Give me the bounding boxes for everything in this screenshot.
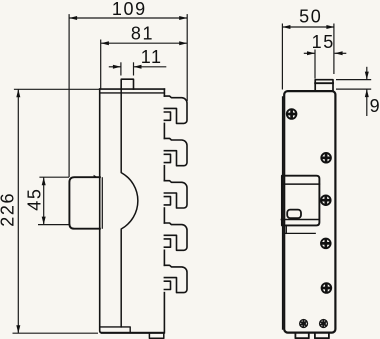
svg-text:15: 15 (312, 32, 335, 52)
dimension 109 left extension line (68, 14, 70, 177)
arrow 9 bottom (365, 89, 369, 97)
dimension 50 line (282, 26, 334, 28)
left view right edge segment between hooks 2-3 (163, 166, 165, 181)
left view internal vertical line with bump arc (121, 89, 138, 327)
svg-text:81: 81 (131, 23, 154, 43)
dimension 9 bottom extension line (336, 88, 371, 90)
arrow 50 right (326, 25, 334, 29)
right view left inner edge line (282, 97, 284, 329)
right view top tab mid line (315, 82, 333, 84)
dimension 11 left extension line (120, 62, 122, 75)
svg-text:109: 109 (112, 0, 147, 19)
right view bottom foot right (315, 334, 329, 339)
left view right edge segment above hook 1 (163, 89, 165, 96)
right view top tab (315, 80, 333, 91)
hook 5 outline (164, 265, 187, 292)
right view step below rectangle (285, 225, 287, 233)
protrusion base line inside body (101, 178, 103, 228)
arrow 226 bottom (16, 325, 20, 333)
left view right edge segment between hooks 4-5 (163, 250, 165, 265)
svg-text:45: 45 (25, 187, 45, 210)
arrow 50 left (282, 25, 290, 29)
hook 3 outline (164, 181, 187, 208)
left view top tab (121, 79, 133, 89)
left view left protrusion (69, 177, 100, 229)
dimension 81 line (101, 42, 187, 44)
screw S2 (321, 153, 331, 163)
svg-text:50: 50 (299, 7, 322, 27)
screw S1 (287, 109, 297, 119)
dimension 11 left tail (109, 66, 121, 68)
dimension 11 right extension line (133, 62, 135, 75)
left view body left edge and bottom edge (100, 89, 164, 333)
hook 4 outline (164, 223, 187, 250)
dimension 226 line (17, 89, 19, 333)
dimension 50 left extension line (281, 24, 283, 90)
dimension 81 left extension line (100, 40, 102, 89)
dimension 109/81 right extension line (186, 14, 188, 101)
bottom screw S6 (299, 319, 308, 328)
arrow 81 left (101, 41, 109, 45)
arrow 45 top (42, 177, 46, 185)
left view right edge segment between hooks 3-4 (163, 208, 165, 223)
arrow 15 right (335, 51, 343, 55)
left view body top edge outer (100, 88, 165, 90)
dimension 226 bottom extension line (13, 332, 99, 334)
dimension 11 right tail (134, 66, 167, 68)
dimension 226 top extension line (14, 88, 100, 90)
dimension 45 bottom extension line (38, 224, 69, 226)
hook 3 tooth (164, 197, 170, 205)
right view shadow line below rectangle (284, 232, 315, 234)
arrow 11 left (113, 65, 121, 69)
dimension 45 line (43, 177, 45, 224)
arrow 11 right (134, 65, 142, 69)
arrow 109 right (179, 16, 187, 20)
screw S3 (321, 195, 331, 205)
hook 1 tooth (164, 112, 170, 120)
dimension 109 line (69, 17, 187, 19)
right view middle rectangle top inner line (283, 183, 319, 185)
dimension 45 top extension line (39, 176, 69, 178)
left view right edge segment below hook 5 (163, 293, 165, 333)
hook 2 tooth (164, 154, 170, 162)
arrow 81 right (179, 41, 187, 45)
screw S5 (322, 283, 332, 293)
hook 2 outline (164, 138, 187, 165)
dimension 50/15 right extension line (333, 24, 335, 75)
hook 1 outline (164, 96, 187, 123)
svg-text:9: 9 (370, 96, 380, 116)
right view body outline (284, 91, 335, 333)
dimension 15 left tail (304, 52, 315, 54)
svg-text:226: 226 (0, 192, 18, 227)
left view body top edge inner (100, 92, 165, 94)
svg-text:11: 11 (141, 47, 163, 67)
right view button (287, 210, 301, 219)
dimension 9 lower arrow shaft (366, 89, 368, 116)
dimension 9 upper arrow shaft (366, 67, 368, 80)
left view right edge segment between hooks 1-2 (163, 123, 165, 138)
dimension 15 right tail (335, 52, 347, 54)
arrow 45 bottom (42, 217, 46, 225)
arrow 226 top (16, 89, 20, 97)
arrow 109 left (69, 16, 77, 20)
screw S4 (321, 239, 331, 249)
left view bottom foot (149, 333, 163, 339)
hook 4 tooth (164, 239, 170, 247)
dimension 9 top extension line (336, 79, 371, 81)
bottom screw S7 (319, 319, 328, 328)
dimension 15 left extension line (314, 50, 316, 79)
right view middle rectangle (282, 176, 320, 226)
arrow 9 top (365, 72, 369, 80)
left view bottom step (100, 327, 131, 333)
hook 5 tooth (164, 281, 170, 289)
arrow 15 left (307, 51, 315, 55)
leader tick at protrusion top (94, 175, 99, 178)
right view middle rectangle lower inner line (281, 219, 319, 221)
right view bottom foot left (295, 334, 308, 339)
